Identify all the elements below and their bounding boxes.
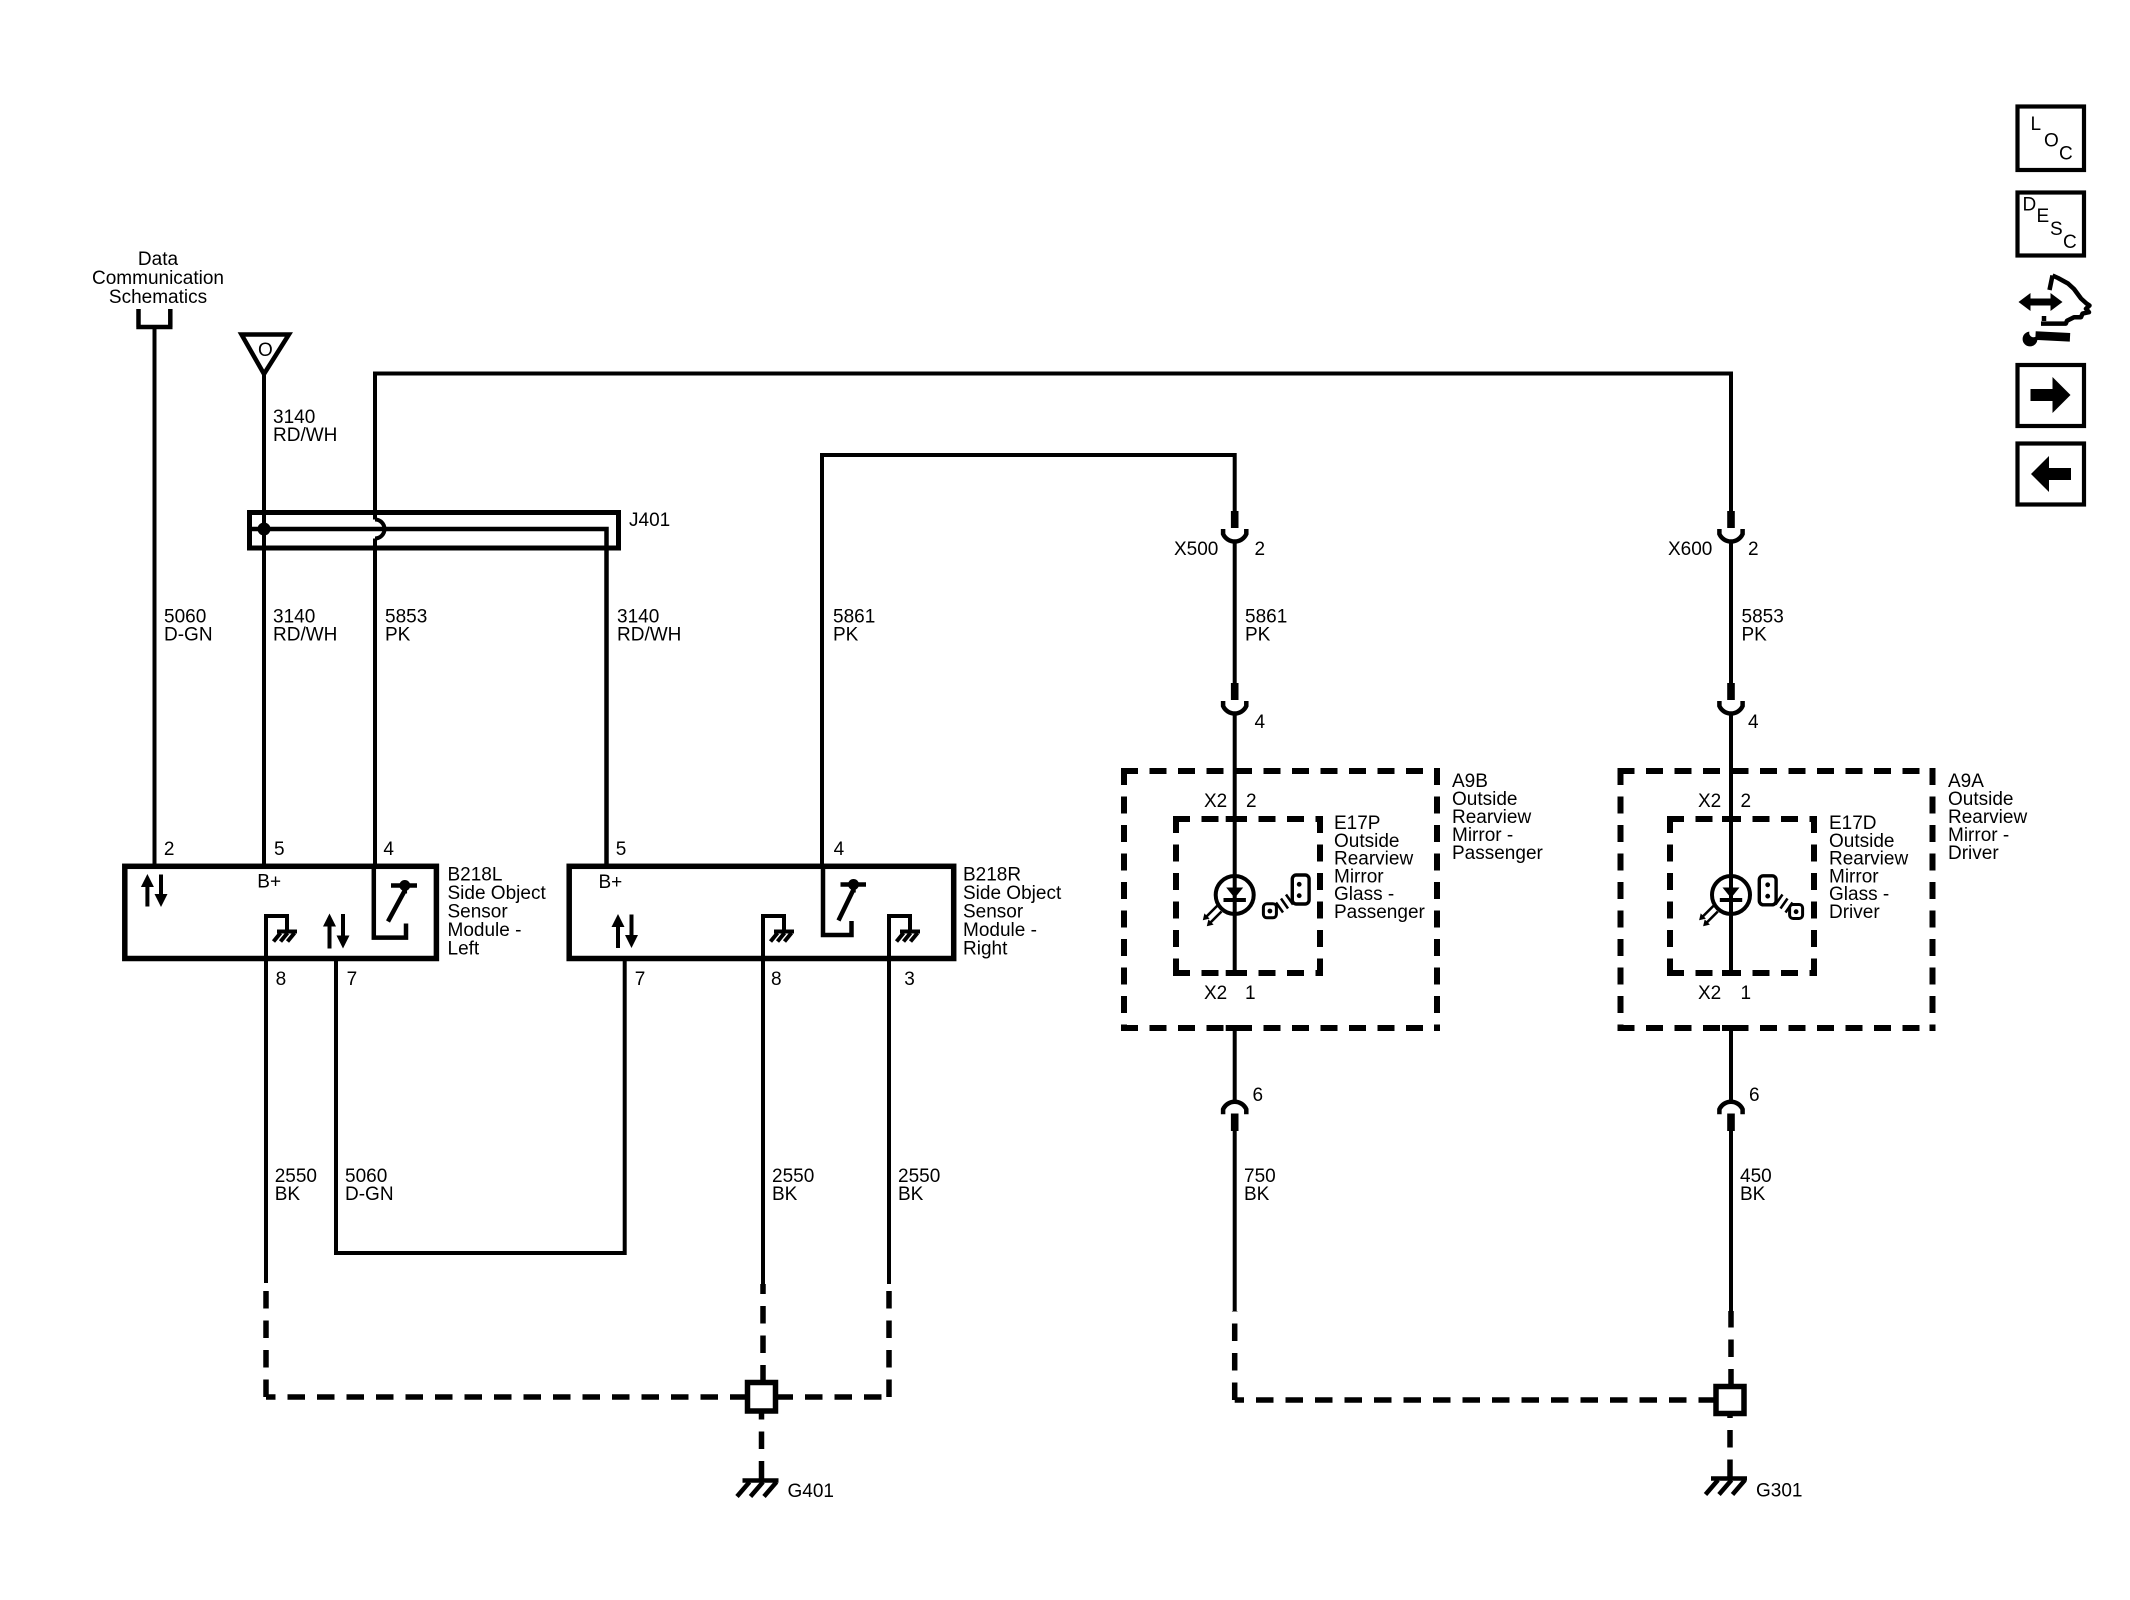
svg-text:PK: PK	[1245, 625, 1271, 646]
svg-text:X600: X600	[1668, 539, 1712, 560]
svg-text:G401: G401	[788, 1481, 834, 1502]
label 2550 BK right	[898, 1166, 940, 1205]
svg-text:BK: BK	[898, 1184, 924, 1205]
svg-text:2: 2	[1246, 791, 1257, 812]
wire top horizontal 5853 run	[373, 372, 1733, 376]
mirror assembly A9B name	[1452, 771, 1544, 864]
wire 2550 BK dashed to G401 splice	[266, 1283, 748, 1397]
label 750 BK	[1244, 1166, 1276, 1205]
wire A9A bottom exit	[1729, 1028, 1733, 1103]
svg-text:G301: G301	[1756, 1481, 1802, 1502]
svg-text:J401: J401	[629, 510, 670, 531]
svg-text:PK: PK	[833, 625, 859, 646]
label 450 BK	[1740, 1166, 1772, 1205]
svg-text:2: 2	[1741, 791, 1752, 812]
connector X600 pin 2	[1668, 511, 1759, 560]
svg-text:B+: B+	[599, 872, 623, 893]
svg-text:4: 4	[383, 839, 394, 860]
connector X2 pin 1 labels A9A	[1698, 983, 1751, 1004]
sidebar back arrow button	[2018, 444, 2085, 505]
svg-text:O: O	[2044, 131, 2059, 152]
label 3140 RD/WH upper	[273, 407, 337, 446]
connector 6 A9B	[1223, 1085, 1263, 1131]
svg-text:C: C	[2059, 144, 2073, 165]
wire 750 BK dashed to G301 splice	[1235, 1311, 1716, 1400]
mirror assembly A9B dashed box	[1121, 768, 1440, 1031]
svg-text:BK: BK	[1244, 1184, 1270, 1205]
svg-text:BK: BK	[275, 1184, 301, 1205]
connector X600 pin 4	[1719, 683, 1759, 733]
mirror assembly A9A name	[1948, 771, 2027, 864]
LED indicator E17D	[1699, 876, 1750, 926]
internal switch B218R pin 4	[823, 866, 866, 935]
wire B218R pin 3 dashed to G401 splice	[776, 1284, 890, 1397]
label 3140 RD/WH left	[273, 607, 337, 646]
wire G301 stem dashed	[1727, 1414, 1733, 1478]
wire 750 BK solid	[1233, 1131, 1237, 1311]
svg-text:S: S	[2050, 219, 2063, 240]
off-page connector symbol (Data Communication Schematics)	[136, 309, 172, 327]
svg-text:7: 7	[635, 969, 646, 990]
splice junction square G301	[1716, 1387, 1744, 1414]
module B218L name	[448, 865, 547, 960]
serial data arrows B218L pin 2	[141, 874, 168, 907]
wire B218L pin 7 to B218R pin 7 5060 D-GN loop	[336, 958, 625, 1253]
svg-text:D-GN: D-GN	[164, 625, 213, 646]
svg-text:Data: Data	[138, 249, 179, 270]
wire X600-4 into A9A	[1729, 713, 1733, 972]
svg-text:E: E	[2037, 206, 2050, 227]
label 5853 PK right	[1742, 607, 1784, 646]
svg-text:7: 7	[347, 969, 358, 990]
wire 5853 PK X600-2 to X600-4	[1729, 541, 1733, 684]
J401 internal bus 3140	[252, 529, 607, 866]
svg-text:5: 5	[616, 839, 627, 860]
svg-text:8: 8	[771, 969, 782, 990]
serial data arrows B218L pin 7	[323, 914, 350, 949]
svg-text:1: 1	[1741, 983, 1752, 1004]
svg-text:6: 6	[1749, 1085, 1760, 1106]
svg-text:X2: X2	[1204, 983, 1227, 1004]
svg-text:6: 6	[1253, 1085, 1264, 1106]
svg-text:BK: BK	[1740, 1184, 1766, 1205]
svg-text:Schematics: Schematics	[109, 287, 207, 308]
svg-text:O: O	[258, 340, 273, 361]
svg-text:4: 4	[834, 839, 845, 860]
svg-text:L: L	[2031, 114, 2042, 135]
internal ground B218R pin 8	[763, 916, 794, 958]
svg-text:Passenger: Passenger	[1334, 902, 1426, 923]
wire 5853 vertical to J401 hop	[373, 372, 377, 520]
wire B218L pin 8 2550 BK solid	[264, 958, 268, 1283]
svg-text:2: 2	[1255, 539, 1266, 560]
wire X600 drop from top horizontal	[1729, 372, 1733, 512]
wire 5853 PK to B218L pin 4	[373, 539, 377, 867]
svg-text:Right: Right	[963, 939, 1008, 960]
svg-text:RD/WH: RD/WH	[273, 425, 337, 446]
svg-text:5: 5	[274, 839, 285, 860]
mirror glass E17D name	[1829, 813, 1908, 923]
svg-text:3: 3	[904, 969, 915, 990]
splice junction square G401	[748, 1383, 776, 1412]
ground G301	[1706, 1479, 1803, 1502]
connector X500 pin 2	[1174, 511, 1265, 560]
module B218R name	[963, 865, 1062, 960]
mirror glass E17P dashed box	[1173, 816, 1323, 976]
wire 450 BK solid	[1729, 1131, 1733, 1311]
internal ground B218L pin 8	[266, 916, 297, 958]
svg-text:RD/WH: RD/WH	[617, 625, 681, 646]
label 5861 PK right	[1245, 607, 1287, 646]
wire B218R pin 8 2550 BK solid	[761, 958, 765, 1284]
svg-text:D: D	[2023, 195, 2037, 216]
wire 450 BK dashed into G301 splice	[1728, 1311, 1734, 1387]
svg-text:8: 8	[276, 969, 287, 990]
wire A9B bottom exit	[1233, 1028, 1237, 1103]
sidebar DESC button	[2018, 193, 2085, 256]
wire 5060 D-GN off-page to B218L pin 2	[153, 329, 157, 866]
wire G401 stem dashed	[759, 1411, 765, 1479]
internal switch B218L pin 4	[374, 866, 417, 938]
sidebar mirror adjust icon	[2019, 276, 2090, 347]
sidebar LOC button	[2018, 107, 2085, 171]
wire 5861 PK X500-2 to X500-4	[1233, 541, 1237, 684]
label 5060 D-GN lower	[345, 1166, 394, 1205]
wire B218R pin 8 dashed into G401 splice	[760, 1284, 766, 1383]
dash ticks at E17P wire crossings	[1226, 819, 1244, 1028]
svg-text:Passenger: Passenger	[1452, 843, 1544, 864]
svg-text:4: 4	[1255, 712, 1266, 733]
wire second horizontal 5861 run	[822, 455, 1235, 866]
splice pack J401	[250, 510, 671, 548]
junction dot J401	[258, 523, 271, 536]
svg-text:B+: B+	[257, 872, 281, 893]
mirror assembly A9A dashed box	[1618, 768, 1936, 1031]
module B218R box	[569, 866, 954, 958]
wire B218R pin 3 2550 BK solid	[887, 958, 891, 1284]
svg-text:Communication: Communication	[92, 268, 224, 289]
connector X2 pin 1 labels A9B	[1204, 983, 1256, 1004]
svg-text:D-GN: D-GN	[345, 1184, 394, 1205]
mirror glass E17P name	[1334, 813, 1426, 923]
label 2550 BK middle	[772, 1166, 814, 1205]
power triangle O (3140 feed)	[242, 335, 289, 375]
serial data arrows B218R pin 7	[612, 914, 639, 948]
connector 6 A9A	[1719, 1085, 1759, 1131]
svg-text:2: 2	[164, 839, 175, 860]
label 3140 RD/WH right	[617, 607, 681, 646]
wire X500-4 into A9B	[1233, 713, 1237, 972]
svg-text:Driver: Driver	[1829, 902, 1880, 923]
svg-text:C: C	[2063, 232, 2077, 253]
ground G401	[737, 1481, 834, 1503]
LED indicator E17P	[1203, 876, 1254, 926]
wire hop over J401 bus	[375, 520, 385, 539]
label 5060 D-GN	[164, 607, 213, 646]
label 5853 PK left	[385, 607, 427, 646]
svg-text:BK: BK	[772, 1184, 798, 1205]
svg-text:X2: X2	[1204, 791, 1227, 812]
svg-text:2: 2	[1748, 539, 1759, 560]
svg-text:4: 4	[1748, 712, 1759, 733]
svg-text:PK: PK	[1742, 625, 1768, 646]
connector X2 pin 2 labels A9B	[1204, 791, 1257, 812]
node Data Communication Schematics label	[92, 249, 224, 308]
svg-text:X2: X2	[1698, 983, 1721, 1004]
sidebar next arrow button	[2018, 365, 2085, 426]
svg-text:X2: X2	[1698, 791, 1721, 812]
svg-text:X500: X500	[1174, 539, 1218, 560]
svg-text:1: 1	[1245, 983, 1256, 1004]
dash ticks at E17D wire crossings	[1722, 819, 1740, 1028]
wire 3140 RD/WH triangle to B218L pin 5	[262, 374, 266, 866]
module B218L box	[125, 866, 437, 958]
svg-text:RD/WH: RD/WH	[273, 625, 337, 646]
svg-text:Driver: Driver	[1948, 843, 1999, 864]
internal ground B218R pin 3	[889, 916, 920, 958]
svg-text:Left: Left	[448, 939, 480, 960]
label 5861 PK left	[833, 607, 875, 646]
connector X500 pin 4	[1223, 683, 1265, 733]
svg-text:PK: PK	[385, 625, 411, 646]
connector X2 pin 2 labels A9A	[1698, 791, 1751, 812]
side object detection icon E17P	[1263, 875, 1309, 918]
label 2550 BK left	[275, 1166, 317, 1205]
side object detection icon E17D	[1759, 876, 1802, 919]
mirror glass E17D dashed box	[1667, 816, 1817, 976]
